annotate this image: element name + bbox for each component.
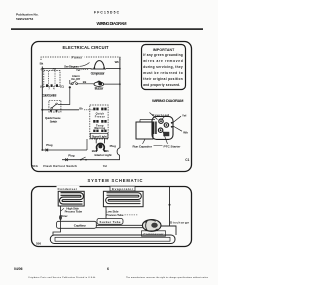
svg-text:Wh: Wh [183, 130, 188, 134]
signal light label box [90, 133, 108, 138]
svg-text:(C): (C) [40, 85, 44, 89]
svg-text:Condenser: Condenser [58, 187, 78, 191]
run capacitor [136, 122, 153, 139]
svg-text:Cold Control: Cold Control [42, 93, 57, 97]
svg-text:Yel: Yel [182, 114, 187, 118]
svg-text:and properly secured.: and properly secured. [143, 83, 180, 87]
svg-text:5995218753: 5995218753 [16, 17, 33, 21]
svg-text:Yel: Yel [103, 164, 107, 168]
IMPORTANT box [142, 45, 186, 90]
svg-text:Signal Light: Signal Light [92, 134, 107, 138]
svg-text:Process Tube: Process Tube [106, 213, 124, 217]
svg-text:PTC Starter: PTC Starter [164, 144, 182, 148]
svg-text:04/06: 04/06 [14, 267, 23, 271]
pin row 1 [93, 108, 95, 111]
pipe evaporator down [105, 207, 107, 219]
svg-text:The manufacturer reserves the: The manufacturer reserves the right to c… [126, 276, 209, 279]
svg-text:Power: Power [72, 56, 84, 60]
wire dome to right bus [106, 68, 120, 70]
wires to Yel and Wh [173, 116, 181, 122]
svg-text:6: 6 [107, 267, 109, 271]
svg-text:Bk: Bk [79, 106, 83, 110]
svg-text:Run Capacitor: Run Capacitor [133, 144, 153, 148]
wire right bus [119, 57, 121, 148]
evaporator coil [107, 194, 141, 202]
power dashed bracket [41, 57, 120, 60]
svg-text:Sucker Tube: Sucker Tube [100, 220, 121, 224]
compressor dome [94, 61, 104, 69]
cold control pins [46, 84, 48, 87]
wire quick freeze up to alarm [58, 80, 71, 105]
compressor unit (right diagram) [152, 116, 173, 139]
svg-text:Switch: Switch [50, 119, 58, 123]
svg-text:(C): (C) [60, 85, 64, 89]
top section outer box [32, 42, 192, 172]
svg-text:6CA: 6CA [32, 164, 39, 168]
svg-text:Evaporator: Evaporator [112, 187, 134, 191]
svg-text:Flash Defrost Switch: Flash Defrost Switch [43, 164, 77, 168]
svg-text:Plug: Plug [68, 153, 74, 157]
svg-text:WIRING DIAGRAM: WIRING DIAGRAM [152, 98, 184, 103]
overload pointer [150, 113, 158, 120]
svg-text:Yel: Yel [76, 68, 80, 72]
heat exchanger tube [50, 235, 175, 244]
interior light lamp [95, 139, 97, 143]
svg-text:Frigidaire Parts and Service P: Frigidaire Parts and Service Publication… [29, 276, 96, 279]
svg-text:Bk: Bk [83, 80, 87, 84]
svg-text:during servicing, they: during servicing, they [143, 65, 183, 69]
svg-text:If any green grounding: If any green grounding [143, 53, 183, 57]
svg-text:Plug: Plug [46, 143, 52, 147]
svg-text:Buzzer: Buzzer [95, 86, 105, 90]
pin row 2 [93, 120, 95, 123]
discharge pipe [169, 187, 171, 227]
bottom section outer box [32, 187, 192, 247]
evaporator label box [110, 186, 135, 191]
wire node row to compressor [42, 68, 91, 70]
header rule [11, 28, 203, 30]
svg-text:Wh: Wh [115, 60, 120, 64]
svg-text:WIRING DIAGRAM: WIRING DIAGRAM [97, 21, 128, 26]
svg-text:wires are removed: wires are removed [142, 59, 183, 63]
buzzer oval [94, 82, 104, 86]
sucker tube label box [97, 219, 123, 225]
flash defrost switch symbol [80, 159, 82, 161]
svg-text:Bk: Bk [40, 62, 44, 66]
plug X symbol 2 [65, 158, 68, 161]
wire bus to quick freeze [42, 109, 79, 111]
evaporator box [103, 191, 143, 206]
svg-text:IMPORTANT: IMPORTANT [153, 48, 175, 52]
svg-text:must be returned to: must be returned to [143, 71, 183, 75]
suction tube double line [96, 224, 143, 226]
condenser box [58, 191, 84, 206]
svg-text:FFC15D5C: FFC15D5C [94, 11, 120, 15]
alarm switch symbol [71, 83, 73, 85]
svg-text:ELECTRICAL CIRCUIT: ELECTRICAL CIRCUIT [63, 45, 109, 50]
quick freeze switch dashed box [49, 100, 61, 112]
compressor (schematic) [142, 220, 161, 232]
svg-text:Interior Light: Interior Light [95, 153, 112, 157]
junction dot [41, 109, 43, 111]
wire buzzer to bus [104, 83, 120, 85]
svg-text:On-Off: On-Off [71, 77, 80, 81]
cold control dashed box [44, 71, 60, 87]
capillary label box [57, 221, 97, 228]
compressor label box [142, 231, 166, 236]
wire left bus [41, 67, 43, 151]
plug X symbol [46, 149, 49, 152]
svg-text:556: 556 [36, 241, 41, 245]
svg-text:C1: C1 [185, 158, 189, 162]
condenser coil [61, 194, 83, 203]
pin row 3 [93, 130, 95, 132]
middle column dashed box [90, 105, 108, 139]
svg-text:Warning: Warning [94, 126, 105, 130]
svg-text:their original position: their original position [143, 77, 183, 81]
svg-text:Capillary: Capillary [74, 223, 86, 227]
wire switch to buzzer [78, 83, 95, 85]
svg-text:Discharge: Discharge [170, 220, 189, 224]
svg-text:SYSTEM SCHEMATIC: SYSTEM SCHEMATIC [88, 178, 143, 183]
svg-text:Drier: Drier [61, 214, 69, 218]
svg-text:Compressor: Compressor [91, 71, 106, 75]
left plug wire [41, 149, 43, 151]
svg-text:Plug: Plug [110, 144, 116, 148]
condenser label box [57, 186, 80, 191]
svg-text:Freeze: Freeze [95, 114, 106, 118]
